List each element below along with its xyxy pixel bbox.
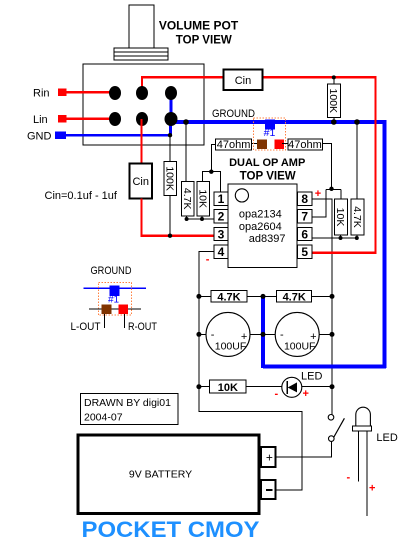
node 10K bottom xyxy=(200,217,204,221)
svg-text:4.7K: 4.7K xyxy=(217,292,240,304)
svg-text:4.7K: 4.7K xyxy=(351,206,363,228)
battery terminal + xyxy=(261,447,275,467)
svg-text:#1: #1 xyxy=(108,295,120,306)
svg-text:+: + xyxy=(303,388,309,400)
svg-text:LED: LED xyxy=(301,371,322,383)
resistor 4.7K (right vertical) xyxy=(351,122,364,238)
node bus 4.7K right xyxy=(354,119,360,125)
volume pot body (top view) xyxy=(83,64,204,145)
svg-text:Rin: Rin xyxy=(33,88,50,100)
battery terminal - xyxy=(261,480,275,499)
capacitor C1 100UF left xyxy=(199,312,263,356)
svg-text:#1: #1 xyxy=(264,127,276,139)
resistor 100K (right input load) xyxy=(327,77,340,122)
svg-text:Cin=0.1uf - 1uf: Cin=0.1uf - 1uf xyxy=(45,190,118,202)
drawn by box xyxy=(81,393,179,424)
connector #1 input jack xyxy=(254,118,286,150)
svg-text:5: 5 xyxy=(301,245,308,259)
svg-text:+: + xyxy=(315,188,321,200)
pin 3 xyxy=(214,227,228,241)
node 10K right bottom xyxy=(339,236,343,240)
capacitor Cin (top) xyxy=(224,70,263,90)
pot lug A3 xyxy=(165,86,177,100)
svg-text:ad8397: ad8397 xyxy=(249,233,286,245)
svg-text:10K: 10K xyxy=(197,189,209,208)
wire GND blue xyxy=(66,134,170,136)
svg-text:Cin: Cin xyxy=(132,176,149,188)
svg-text:POCKET CMOY: POCKET CMOY xyxy=(82,517,260,542)
svg-text:L-OUT: L-OUT xyxy=(71,321,101,333)
wire red over V+ rail crossing xyxy=(329,252,335,254)
pot lug B1 xyxy=(109,112,121,126)
pad R-OUT red xyxy=(118,304,128,314)
node divider right xyxy=(330,294,335,299)
wire pin6 lead xyxy=(312,237,357,239)
LED D1 symbol xyxy=(282,377,332,397)
resistor 4.7K (left vertical) xyxy=(181,122,194,219)
node junction on red wire xyxy=(332,75,336,79)
svg-text:100UF: 100UF xyxy=(215,341,247,353)
svg-text:GND: GND xyxy=(27,131,52,143)
wire pin7 to junction xyxy=(312,189,326,217)
pin 4 xyxy=(214,245,228,259)
svg-text:+: + xyxy=(369,483,375,495)
pot lug A2 xyxy=(136,86,148,100)
svg-text:4.7K: 4.7K xyxy=(283,292,306,304)
node bus 100K right xyxy=(331,119,337,125)
pot lug B3 xyxy=(165,112,178,126)
svg-text:-: - xyxy=(211,329,215,341)
LED physical drawing xyxy=(352,407,371,516)
svg-text:GROUND: GROUND xyxy=(212,108,255,120)
svg-text:GROUND: GROUND xyxy=(91,265,132,277)
node pin1 junction xyxy=(209,170,213,174)
node cap mid xyxy=(261,332,266,337)
svg-text:DUAL OP AMP: DUAL OP AMP xyxy=(229,157,305,169)
resistor 4.7K (divider right) xyxy=(263,291,332,304)
volume pot shaft xyxy=(129,5,154,48)
svg-text:-: - xyxy=(280,329,284,341)
wire: red from pot lug to top Cin xyxy=(142,77,224,93)
svg-text:4: 4 xyxy=(218,245,225,259)
svg-text:VOLUME POT: VOLUME POT xyxy=(159,19,239,33)
svg-text:opa2134: opa2134 xyxy=(239,209,282,221)
capacitor Cin (left) xyxy=(130,164,152,199)
svg-text:4.7K: 4.7K xyxy=(181,188,193,210)
node 4.7K bottom xyxy=(185,217,189,221)
node cap right rail xyxy=(330,332,335,337)
svg-text:100K: 100K xyxy=(327,89,339,114)
node bus 4.7K left xyxy=(183,119,189,125)
svg-text:10K: 10K xyxy=(218,382,238,394)
svg-text:-: - xyxy=(347,472,351,484)
resistor 10K (right feedback) xyxy=(334,189,347,238)
svg-text:Lin: Lin xyxy=(33,114,48,126)
pad Lin xyxy=(58,115,67,123)
svg-text:7: 7 xyxy=(301,210,308,224)
node cap left rail xyxy=(196,332,201,337)
svg-text:TOP VIEW: TOP VIEW xyxy=(176,35,232,47)
capacitor C2 100UF right xyxy=(263,312,332,356)
wire L-OUT tick xyxy=(104,314,106,328)
ground bus blue horizontal xyxy=(168,120,386,124)
svg-text:2: 2 xyxy=(218,210,225,224)
svg-text:100K: 100K xyxy=(163,166,175,191)
wire: red from top Cin right to corner and down to pin 5 xyxy=(263,77,376,252)
svg-text:9V BATTERY: 9V BATTERY xyxy=(129,469,192,481)
wire red Cin to pin3 xyxy=(142,199,214,236)
svg-text:3: 3 xyxy=(218,227,225,241)
resistor 10K (LED series) xyxy=(199,380,282,394)
node divider mid xyxy=(261,294,266,299)
wire output jack through line xyxy=(89,308,141,310)
resistor 4.7K (divider left) xyxy=(199,291,263,304)
wire red over bus crossing xyxy=(374,119,376,125)
volume pot bushing collar xyxy=(114,48,168,60)
pin 1 xyxy=(214,192,228,206)
battery 9V xyxy=(78,435,259,514)
node on ground wire xyxy=(168,133,172,137)
pot lug B2 xyxy=(136,112,148,126)
resistor 100K (left input load) xyxy=(163,135,176,236)
wire blue pot lug link xyxy=(170,93,173,122)
title DUAL OP AMP TOP VIEW xyxy=(229,157,305,183)
node 10K rail xyxy=(196,384,201,389)
wire pin8 to V+ rail xyxy=(312,199,332,387)
svg-text:opa2604: opa2604 xyxy=(239,221,282,233)
resistor 47ohm (right) xyxy=(282,139,331,189)
wire pin2 lead xyxy=(187,218,214,220)
pad L-OUT brown xyxy=(101,304,111,314)
wire blue output ground xyxy=(84,287,147,289)
svg-text:LED: LED xyxy=(376,432,397,444)
node 4.7K right bottom xyxy=(355,236,359,240)
pin 5 xyxy=(297,245,312,259)
pad GND xyxy=(55,132,66,140)
node output B junction xyxy=(329,187,333,191)
pot lug A1 xyxy=(109,86,121,100)
wire blue lug to gnd node xyxy=(169,119,172,135)
pin 6 xyxy=(297,227,312,241)
switch SW1 xyxy=(277,387,345,458)
wire pin4 to V- rail xyxy=(199,252,302,490)
resistor 10K (left feedback) xyxy=(197,172,212,219)
wire Rin red xyxy=(67,91,116,93)
node 100K to pin3 wire xyxy=(168,234,172,238)
wire R-OUT tick xyxy=(124,314,126,328)
wire blue bus over V+ rail crossing xyxy=(329,365,335,369)
svg-text:DRAWN BY digi01: DRAWN BY digi01 xyxy=(84,397,171,409)
pin 7 xyxy=(297,210,312,224)
resistor 47ohm (left) xyxy=(211,139,256,172)
title VOLUME POT TOP VIEW xyxy=(159,19,239,47)
wire red pot to Cin left xyxy=(140,119,142,164)
ground bus blue bottom horizontal xyxy=(263,365,386,369)
ground bus blue riser to divider xyxy=(261,296,265,368)
pad Rin xyxy=(58,89,67,97)
ground bus blue right vertical xyxy=(383,120,387,368)
wire output B bar xyxy=(326,188,341,190)
wire Lin red xyxy=(67,118,116,120)
svg-text:10K: 10K xyxy=(334,208,346,227)
svg-text:47ohm: 47ohm xyxy=(217,139,251,151)
wire junction to pin1 xyxy=(211,172,220,192)
svg-text:TOP VIEW: TOP VIEW xyxy=(240,171,296,183)
svg-text:47ohm: 47ohm xyxy=(288,139,322,151)
pin 8 xyxy=(297,192,312,206)
svg-text:100UF: 100UF xyxy=(284,341,316,353)
node divider left xyxy=(196,294,201,299)
svg-text:6: 6 xyxy=(301,227,308,241)
svg-text:8: 8 xyxy=(301,192,308,206)
svg-text:-: - xyxy=(206,253,210,265)
svg-text:R-OUT: R-OUT xyxy=(128,321,157,333)
node LED V+ rail xyxy=(330,384,335,389)
svg-text:2004-07: 2004-07 xyxy=(84,412,123,424)
op-amp U1 body xyxy=(228,184,297,268)
svg-text:-: - xyxy=(275,388,279,400)
svg-text:1: 1 xyxy=(218,192,225,206)
svg-text:+: + xyxy=(266,451,273,465)
svg-text:Cin: Cin xyxy=(235,75,252,87)
connector #1 output jack xyxy=(98,283,131,316)
pin 2 xyxy=(214,210,228,224)
